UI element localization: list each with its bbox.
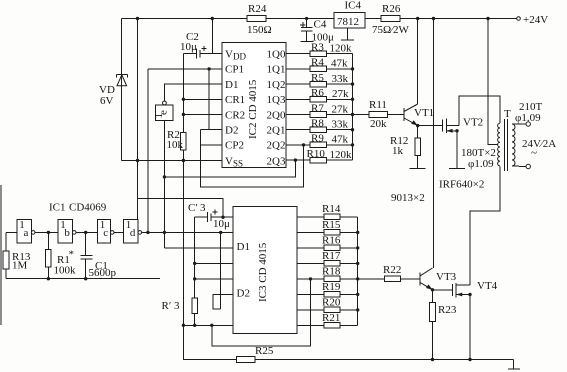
node 2Q2 feedback junction: [302, 143, 305, 146]
svg-text:1Q0: 1Q0: [267, 49, 286, 61]
resistor R17: [324, 261, 340, 267]
svg-text:R26: R26: [382, 3, 401, 15]
wire c to d: [114, 231, 124, 233]
wire emitter down to R23: [432, 290, 434, 303]
node rail-VT3 junction: [432, 17, 435, 20]
wire C2 to CR chain: [182, 54, 184, 133]
resistor R3': [162, 298, 198, 325]
svg-text:IC2 CD 4015: IC2 CD 4015: [247, 79, 259, 139]
svg-text:27k: 27k: [332, 88, 349, 100]
node VSS' loop junction: [210, 324, 213, 327]
node rail-centertap junction: [486, 17, 489, 20]
wire gate a input left: [6, 231, 17, 233]
ground C4: [301, 41, 314, 43]
resistor R16: [324, 245, 340, 251]
resistor R18: [324, 276, 340, 282]
svg-text:R3: R3: [311, 42, 324, 54]
svg-text:R14: R14: [322, 203, 341, 215]
op-amp gate a: [17, 219, 35, 243]
svg-text:+24V: +24V: [523, 14, 548, 26]
svg-text:2Q3: 2Q3: [267, 155, 286, 167]
node bus junctions: [351, 67, 354, 70]
svg-text:C4: C4: [314, 19, 327, 31]
svg-text:2Q2: 2Q2: [267, 140, 286, 152]
svg-text:D2: D2: [225, 125, 238, 137]
svg-text:C′: C′: [188, 202, 198, 214]
svg-text:R′: R′: [162, 300, 172, 312]
wire D1 row: [164, 84, 221, 101]
svg-text:R22: R22: [383, 264, 401, 276]
node CP1 junction: [207, 67, 210, 70]
wire 2Q1 row: [286, 129, 310, 131]
svg-text:R19: R19: [322, 281, 341, 293]
svg-text:CP2: CP2: [225, 140, 244, 152]
wire CR2' row: [195, 278, 233, 280]
node rail-VDD junction: [211, 17, 214, 20]
svg-text:R21: R21: [322, 312, 340, 324]
svg-text:47k: 47k: [332, 134, 349, 146]
svg-text:1Q2: 1Q2: [267, 79, 286, 91]
node VT4 rail junction: [468, 358, 471, 361]
wire b to c: [76, 231, 98, 233]
wire left long vertical from rail to bypass: [137, 19, 139, 221]
wire C3' left chain down: [194, 217, 196, 298]
node VSS-left junction: [136, 159, 139, 162]
svg-text:D1: D1: [225, 79, 238, 91]
resistor R15: [324, 230, 340, 236]
wire CP2 dogleg: [200, 144, 221, 146]
svg-text:R20: R20: [322, 297, 341, 309]
wire top +V rail: [122, 18, 517, 20]
svg-text:IC4: IC4: [345, 0, 362, 12]
resistor R19: [324, 292, 340, 298]
wire R12 to ground: [417, 155, 419, 168]
resistor R14: [324, 214, 340, 220]
resistor R3: [310, 51, 326, 57]
resistor R10: [310, 157, 326, 163]
svg-text:a: a: [24, 227, 29, 239]
svg-text:R8: R8: [311, 118, 324, 130]
svg-text:3: 3: [174, 300, 180, 312]
wire VT3 collector vertical: [433, 19, 435, 269]
node VT2 source junction: [455, 129, 458, 132]
svg-text:120k: 120k: [330, 149, 353, 161]
transformer T secondary winding: [504, 101, 543, 166]
node R23 rail junction: [431, 358, 434, 361]
wire VDD to rail: [211, 19, 213, 54]
resistor R9: [310, 142, 326, 148]
IC3 CD4015: [233, 207, 297, 334]
svg-text:φ1.09: φ1.09: [468, 158, 494, 170]
ground IC4: [341, 28, 354, 40]
svg-text:R10: R10: [307, 148, 326, 160]
wire R14-R21 bus: [340, 216, 358, 218]
wire bus2 vertical: [357, 217, 359, 326]
resistor R22: [385, 276, 401, 282]
svg-text:20k: 20k: [370, 118, 387, 130]
resistor R4: [310, 66, 326, 72]
capacitor C3': [188, 202, 233, 230]
wire VSS' to lower loop: [212, 279, 311, 346]
resistor R13: [3, 232, 31, 278]
wire oscillator bottom: [6, 278, 160, 280]
wire VSS row: [122, 160, 222, 162]
node CR1 junction: [182, 98, 185, 101]
wire bus to R11: [353, 114, 370, 116]
svg-text:c: c: [103, 227, 108, 239]
wire VT2 source to ground: [456, 131, 458, 169]
node C1 top junction: [84, 231, 87, 234]
wire IC3 q rows: [297, 216, 324, 218]
svg-text:1Q3: 1Q3: [267, 94, 286, 106]
svg-text:CD4069: CD4069: [69, 202, 107, 214]
wire R11 to VT1 base: [387, 114, 404, 116]
wire D2-CP2 to 2Q2 feedback: [200, 130, 303, 187]
wire bus2 to R22: [358, 278, 385, 280]
svg-text:R9: R9: [311, 133, 324, 145]
IC2 CD4015: [222, 42, 286, 168]
svg-text:100k: 100k: [54, 265, 77, 277]
wire VT4 source to rail: [469, 295, 471, 360]
svg-text:R25: R25: [255, 345, 274, 357]
svg-text:D2: D2: [237, 288, 250, 300]
wire D2' row dogleg: [213, 294, 233, 309]
resistor R12: [415, 138, 421, 156]
resistor R8: [310, 127, 326, 133]
svg-text:R15: R15: [322, 219, 341, 231]
wire primary bottom to VT4 drain: [470, 166, 500, 285]
wire 1Q2 row: [286, 83, 310, 85]
wire R22 to VT3 base: [400, 278, 420, 280]
node C3' right junction: [221, 216, 224, 219]
ground R12: [410, 168, 426, 170]
wire resistor bus right: [326, 53, 352, 55]
wire bypass to IC3 VDD: [138, 199, 224, 218]
transistor VT4 IRF640: [453, 280, 498, 297]
svg-text:R16: R16: [322, 235, 341, 247]
svg-text:R18: R18: [322, 266, 341, 278]
wire CR1' row: [195, 262, 233, 264]
node VSS' left junction: [182, 324, 185, 327]
svg-text:IC3 CD 4015: IC3 CD 4015: [257, 242, 269, 302]
wire VT1 emitter to VT2 gate: [418, 125, 443, 127]
svg-text:R4: R4: [311, 57, 324, 69]
ground VT2: [449, 168, 465, 170]
wire D1' row: [164, 247, 232, 249]
resistor R11: [369, 112, 387, 118]
wire gate e input down: [163, 120, 165, 247]
svg-text:R6: R6: [311, 87, 324, 99]
svg-text:10k: 10k: [167, 139, 184, 151]
wire secondary top lead: [512, 123, 526, 125]
capacitor C2: [180, 31, 222, 59]
svg-text:5600p: 5600p: [89, 267, 117, 279]
node VT1 emitter junction: [416, 124, 419, 127]
resistor R7: [310, 112, 326, 118]
svg-text:d: d: [130, 227, 136, 239]
svg-text:2Q1: 2Q1: [267, 125, 286, 137]
svg-text:R17: R17: [322, 250, 341, 262]
svg-text:120k: 120k: [330, 43, 353, 55]
wire CP1 row: [148, 68, 222, 70]
wire 2Q3 feedback: [164, 160, 295, 177]
ground bottom right: [508, 360, 520, 369]
svg-text:e: e: [158, 110, 170, 115]
node d-output D1' branch: [163, 231, 166, 234]
wire bus vertical: [352, 54, 354, 160]
wire 1Q3 row: [286, 98, 310, 100]
svg-text:7812: 7812: [337, 16, 359, 28]
scan edge artifacts: [0, 185, 2, 325]
wire D2 row: [200, 129, 221, 131]
wire secondary bottom lead: [512, 165, 526, 168]
svg-text:CR1: CR1: [225, 94, 245, 106]
wire 2Q0 row: [286, 114, 310, 116]
wire center tap: [488, 19, 498, 145]
resistor R6: [310, 97, 326, 103]
svg-text:1k: 1k: [392, 145, 404, 157]
svg-text:1M: 1M: [12, 260, 28, 272]
wire 1Q0 row: [286, 53, 310, 55]
node CR1' junction: [193, 262, 196, 265]
wire CR2 row: [183, 114, 221, 116]
svg-text:CP1: CP1: [225, 64, 244, 76]
wire VT2 drain to transformer top: [459, 96, 500, 125]
op-amp gate c: [98, 219, 114, 243]
transistor VT1 9013: [404, 104, 434, 126]
node CR2 junction: [182, 113, 185, 116]
svg-text:R11: R11: [369, 99, 387, 111]
svg-text:150Ω: 150Ω: [247, 24, 272, 36]
node R1 bottom junction: [47, 277, 50, 280]
svg-text:47k: 47k: [331, 58, 348, 70]
wire emitter down to R12: [417, 126, 419, 138]
node CR2' junction: [193, 277, 196, 280]
svg-text:VT4: VT4: [477, 280, 498, 292]
node VT3 emitter junction: [431, 288, 434, 291]
transistor VT2 IRF640: [443, 117, 483, 134]
resistor R2: [181, 133, 187, 151]
svg-text:10μ: 10μ: [213, 218, 230, 230]
node 2Q3 junction: [294, 158, 297, 161]
svg-text:75Ω⁄2W: 75Ω⁄2W: [372, 24, 410, 36]
node R18 row loop junction: [309, 277, 312, 280]
resistor R20: [324, 307, 340, 313]
svg-text:3: 3: [200, 202, 206, 214]
svg-text:1Q1: 1Q1: [267, 64, 286, 76]
svg-text:IRF640×2: IRF640×2: [439, 179, 484, 191]
wire clock chain vertical: [220, 232, 222, 309]
wire VSS' row: [183, 324, 232, 326]
node 2Q3 feedback junction: [163, 175, 166, 178]
svg-text:33k: 33k: [332, 119, 349, 131]
node R3' bottom junction: [193, 324, 196, 327]
resistor R23: [430, 303, 436, 322]
terminal secondary top: [526, 122, 530, 126]
wire bottom rail: [183, 358, 513, 361]
node rail-VT1 junction: [416, 17, 419, 20]
svg-text:R7: R7: [311, 102, 324, 114]
svg-text:27k: 27k: [332, 103, 349, 115]
svg-text:*: *: [69, 249, 75, 261]
svg-text:6V: 6V: [100, 95, 114, 107]
svg-text:33k: 33k: [332, 73, 349, 85]
node d-output to IC3 clock chain: [219, 231, 222, 234]
node C1 bottom junction: [84, 277, 87, 280]
op-amp gate b: [58, 219, 76, 243]
svg-text:10μ: 10μ: [180, 41, 197, 53]
node VSS-R2 junction: [182, 159, 185, 162]
terminal +24V: [517, 17, 521, 21]
svg-text:VT2: VT2: [463, 117, 483, 129]
wire 1Q1 row: [286, 68, 310, 70]
node d-output to IC2 CP1: [146, 231, 149, 234]
node R1 top junction: [47, 231, 50, 234]
svg-text:VT3: VT3: [436, 271, 457, 283]
svg-text:T: T: [504, 108, 511, 120]
wire R2 to VSS and down to IC3 VSS: [182, 150, 184, 359]
wire VT1 collector to rail: [417, 19, 419, 105]
resistor R26: [381, 16, 400, 22]
terminal secondary bottom: [526, 164, 530, 168]
svg-text:IC1: IC1: [49, 202, 66, 214]
svg-text:R5: R5: [311, 72, 324, 84]
transistor VT3 9013: [420, 268, 457, 290]
wire CP1 to gate d output: [147, 69, 149, 233]
resistor R21: [324, 323, 340, 329]
wire gate d output to IC3 CP: [142, 231, 233, 233]
wire a to b: [35, 231, 58, 233]
capacitor C4: [300, 17, 334, 44]
diode VD zener 6V: [99, 19, 127, 161]
svg-text:VT1: VT1: [414, 107, 434, 119]
wire CP1 to D2: [208, 69, 210, 130]
node VT4 source junction: [468, 293, 471, 296]
transformer core: [504, 119, 506, 171]
wire R23 to rail: [432, 322, 434, 360]
svg-text:R23: R23: [438, 304, 457, 316]
node bus2 junctions: [356, 231, 359, 234]
wire 2Q3 row: [286, 159, 310, 161]
op-amp gate e inverter: [153, 101, 173, 120]
wire VT3 emitter to VT4 gate: [433, 289, 453, 291]
svg-text:9013×2: 9013×2: [391, 192, 425, 204]
op-amp IC4 7812 regulator: [334, 0, 365, 28]
resistor R25: [237, 357, 256, 363]
transformer T primary winding: [461, 123, 500, 170]
svg-text:24V⁄2A: 24V⁄2A: [522, 138, 556, 150]
svg-text:b: b: [64, 227, 70, 239]
svg-text:R24: R24: [248, 3, 267, 15]
svg-text:~: ~: [531, 147, 537, 159]
resistor R24: [247, 16, 266, 22]
node rail-VD junction: [136, 17, 139, 20]
svg-text:2Q0: 2Q0: [267, 109, 286, 121]
svg-text:D1: D1: [237, 241, 250, 253]
wire 2Q2 row: [286, 144, 310, 146]
capacitor C1: [81, 232, 117, 279]
svg-text:CR2: CR2: [225, 109, 245, 121]
resistor R5: [310, 81, 326, 87]
resistor R1: [46, 232, 76, 278]
op-amp gate d: [124, 219, 142, 243]
wire CR1 row: [183, 98, 221, 100]
